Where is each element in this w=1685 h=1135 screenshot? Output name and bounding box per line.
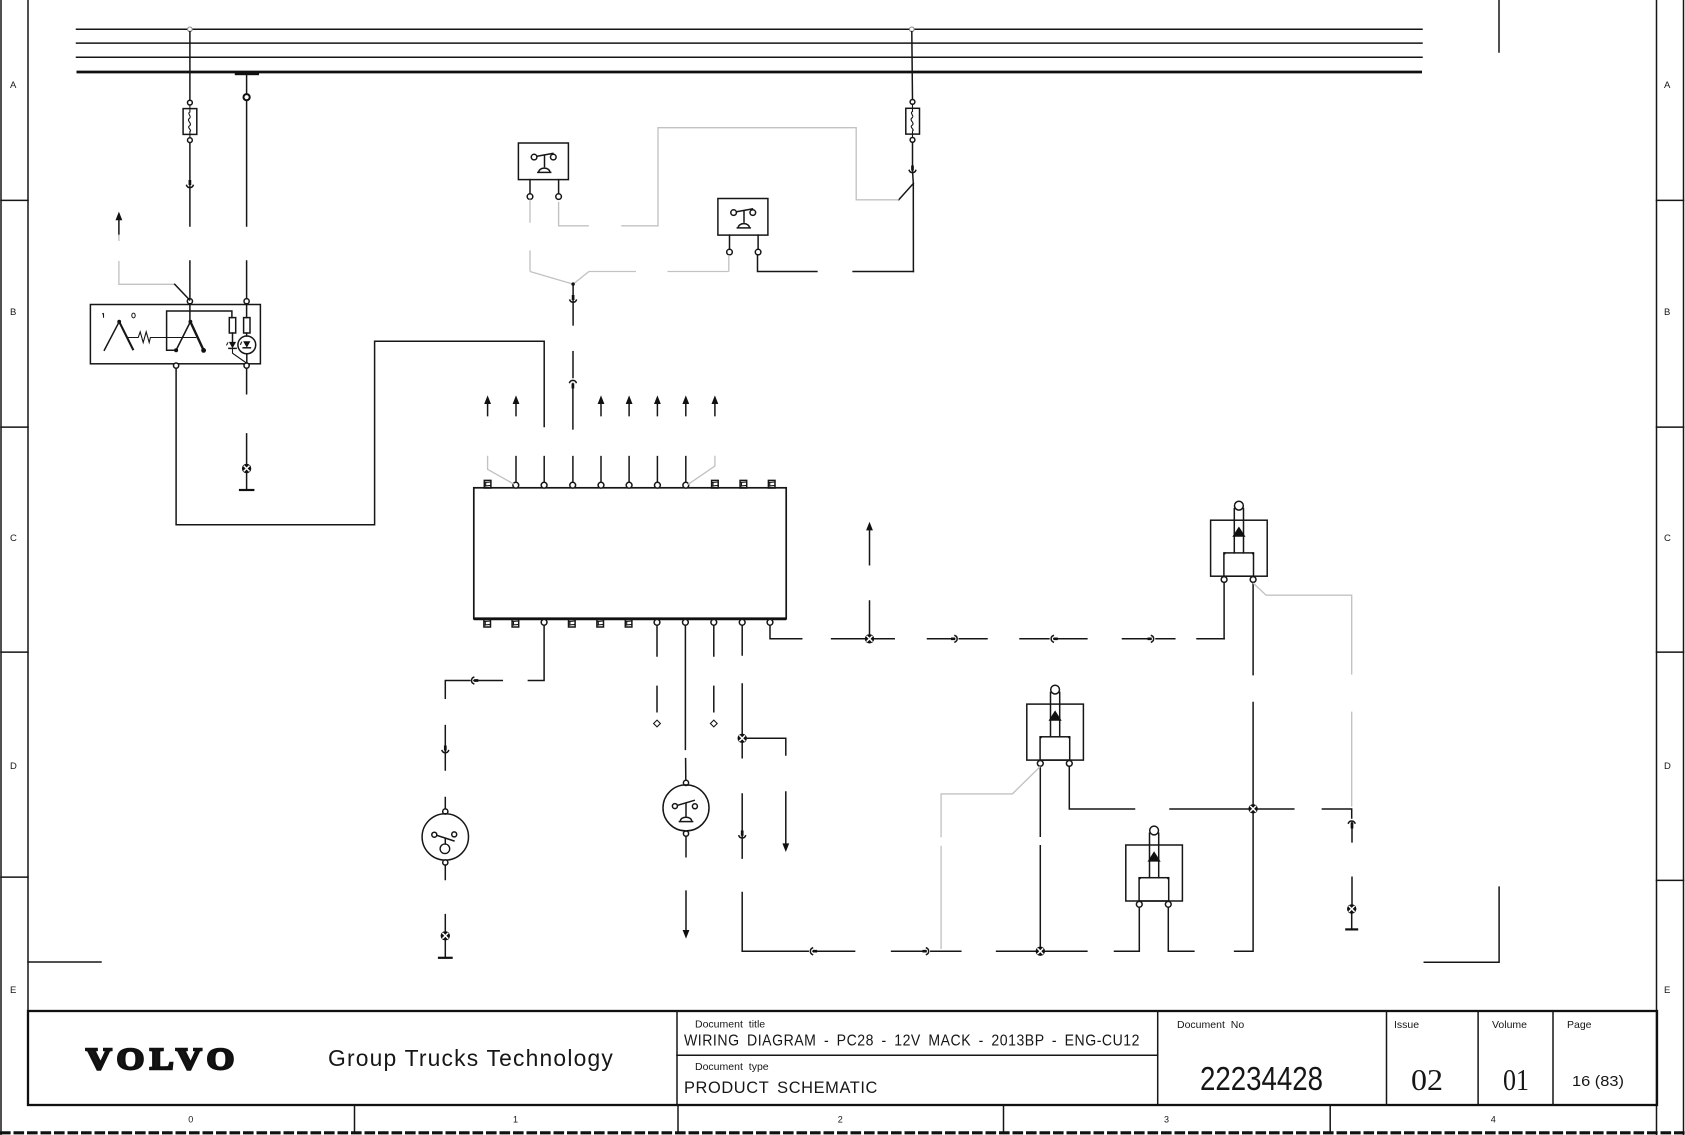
ECU bottom pin circle xyxy=(541,619,547,625)
pin label 1 xyxy=(102,313,103,318)
svg-text:Document type: Document type xyxy=(695,1061,769,1073)
ground G1 xyxy=(246,473,248,490)
svg-text:PRODUCT SCHEMATIC: PRODUCT SCHEMATIC xyxy=(684,1079,878,1097)
lamp L1 terminal xyxy=(443,809,448,814)
svg-text:Document No: Document No xyxy=(1177,1019,1244,1031)
off-page arrow up from splice xyxy=(866,522,873,531)
terminal circle at sensor xyxy=(187,299,192,304)
wire loop lower segment xyxy=(543,457,545,482)
node on bus wire 1 xyxy=(910,27,915,32)
svg-text:VOLVO: VOLVO xyxy=(86,1041,240,1076)
svg-text:0: 0 xyxy=(188,1115,193,1125)
ECU control unit xyxy=(474,488,786,619)
run segment w/ connector xyxy=(1020,638,1049,640)
pin label 0 xyxy=(132,313,135,318)
wire ECU pin to lamp L2 xyxy=(684,625,686,780)
wire fuse F2 down xyxy=(912,142,914,167)
run segment w/ connector xyxy=(928,638,955,640)
svg-text:A: A xyxy=(1664,80,1671,91)
resistor R1 xyxy=(229,318,235,333)
row E stub line left xyxy=(28,961,101,963)
ground G3 xyxy=(1351,914,1353,930)
ECU top right pin squares xyxy=(712,480,719,488)
pressure switch L2 xyxy=(663,785,709,831)
page frame right outer border xyxy=(1683,0,1685,1135)
terminal circle xyxy=(910,138,915,143)
wire S2 right pin to fuse branch xyxy=(758,255,914,272)
solenoid valve Y2 xyxy=(1027,704,1084,760)
off-page arrow up xyxy=(116,212,123,221)
splice on K1 leg xyxy=(1248,804,1257,813)
svg-text:01: 01 xyxy=(1503,1062,1529,1097)
wire ECU pin to splice S5 xyxy=(741,625,743,733)
page frame left inner border xyxy=(27,0,29,1011)
wire fuse F1 down xyxy=(189,143,191,182)
wire ECU pin to lamp L1 xyxy=(528,625,544,680)
wire lamp L2 off-page arrow xyxy=(685,836,687,930)
V-splice node xyxy=(571,282,574,285)
svg-text:E: E xyxy=(1664,985,1670,996)
solenoid valve Y1 xyxy=(1211,520,1268,576)
svg-text:E: E xyxy=(10,985,16,996)
node on bus wire 1 xyxy=(188,27,193,32)
wire ECU pin stub w/ diamond xyxy=(656,625,658,711)
ground splice xyxy=(441,931,450,940)
run final segment to relay K1 xyxy=(1197,638,1224,640)
ground G2 xyxy=(444,941,446,958)
warning lamp L1 xyxy=(422,814,468,860)
wire K2 right leg xyxy=(1069,766,1134,809)
sensor unit box xyxy=(90,305,260,364)
solenoid valve Y3 xyxy=(1126,845,1183,901)
wire bus to fuse F1 xyxy=(189,32,191,101)
wire ECU pin stub w/ diamond xyxy=(713,625,715,711)
V-splice right branch xyxy=(573,272,589,285)
indicator LED xyxy=(238,336,256,354)
svg-text:Document title: Document title xyxy=(695,1019,765,1031)
svg-text:B: B xyxy=(10,307,16,318)
wire splice branch right w/ arrow xyxy=(747,738,786,843)
splice on run xyxy=(865,634,874,643)
svg-text:C: C xyxy=(1664,533,1671,544)
bottom cut dashed line xyxy=(0,1131,1685,1134)
wire V-splice to ECU xyxy=(572,284,574,297)
left row labels xyxy=(10,80,17,996)
wire lamp L1 to ground xyxy=(444,865,446,931)
wire K2 left leg xyxy=(1039,766,1041,946)
wire K1 gray branch xyxy=(1253,583,1352,807)
svg-text:Group Trucks Technology: Group Trucks Technology xyxy=(328,1045,614,1071)
ground splice xyxy=(1347,904,1356,913)
bottom wire run xyxy=(742,950,808,952)
ECU bottom pin squares xyxy=(569,619,576,627)
inner frame xyxy=(167,311,232,350)
wire K2 gray branch xyxy=(941,767,1040,950)
svg-text:B: B xyxy=(1664,307,1670,318)
svg-text:WIRING DIAGRAM - PC28 - 12V MA: WIRING DIAGRAM - PC28 - 12V MACK - 2013B… xyxy=(684,1033,1140,1050)
svg-text:16 (83): 16 (83) xyxy=(1572,1074,1624,1090)
wire K3 right leg xyxy=(1168,907,1194,951)
bottom ruler labels xyxy=(188,1115,1495,1125)
bus wire 1 xyxy=(77,28,1423,30)
fuse F2 xyxy=(906,108,920,134)
terminal circle at sensor xyxy=(244,299,249,304)
pressure switch S1 xyxy=(518,143,568,180)
wire ECU pin to relay run xyxy=(770,625,802,638)
title block outline xyxy=(28,1011,1657,1105)
gray jumper to pin left xyxy=(488,456,514,484)
wire splice down to bottom run xyxy=(741,743,743,832)
ECU top pin squares xyxy=(484,480,491,488)
fuse F1 xyxy=(183,109,197,135)
connector terminal wedges xyxy=(190,166,1352,952)
zener diode D1 xyxy=(229,342,236,348)
wire run to relay K1 xyxy=(832,638,895,640)
wire S1 left pin xyxy=(529,199,531,271)
bottom ruler ticks xyxy=(355,1105,1331,1131)
run segment w/ connector xyxy=(1123,638,1151,640)
wire K1 left leg xyxy=(1223,582,1225,638)
svg-text:A: A xyxy=(10,80,17,91)
splice xyxy=(738,734,747,743)
svg-text:3: 3 xyxy=(1164,1115,1169,1125)
level float symbol right xyxy=(189,320,193,324)
off-page arrows above ECU xyxy=(484,395,491,404)
wire connector down xyxy=(189,186,191,226)
svg-text:D: D xyxy=(1664,761,1671,772)
bus bar tap xyxy=(235,73,259,76)
wire junction to sensor xyxy=(246,101,248,227)
svg-text:D: D xyxy=(10,761,17,772)
lamp L2 terminal xyxy=(683,780,688,785)
pressure switch S2 xyxy=(718,199,768,236)
title block dividers xyxy=(677,1011,1553,1105)
splice bottom run xyxy=(1036,947,1045,956)
bus wire 2 xyxy=(77,42,1423,44)
wire K1 right leg down xyxy=(1252,582,1254,804)
svg-text:C: C xyxy=(10,533,17,544)
switch pins xyxy=(730,235,759,249)
svg-text:Issue: Issue xyxy=(1394,1019,1419,1031)
wire S2 left pin run xyxy=(589,255,729,272)
resistor zigzag xyxy=(128,332,197,343)
bus wire 4 thick xyxy=(77,71,1423,74)
wire lower segment xyxy=(246,261,248,299)
V-splice left branch xyxy=(530,272,573,285)
svg-text:22234428: 22234428 xyxy=(1200,1060,1323,1097)
wire D1 to terminal xyxy=(233,348,247,363)
wire branch to gray harness xyxy=(899,184,914,200)
wire connector to branch node xyxy=(912,171,915,183)
gray jumper to pin right xyxy=(688,456,715,485)
right row labels xyxy=(1664,80,1671,996)
svg-text:02: 02 xyxy=(1411,1062,1443,1097)
wire gray harness fuse to S1 xyxy=(621,128,899,226)
terminal circle xyxy=(188,138,193,143)
wire sensor ground xyxy=(246,368,248,463)
wire gray harness link xyxy=(118,235,120,242)
wire tap down xyxy=(246,75,248,94)
ECU bottom pin circles xyxy=(654,619,660,625)
sensor bottom terminals xyxy=(174,363,179,368)
page frame right inner border xyxy=(1656,0,1658,1135)
left row dividers xyxy=(1,200,28,877)
svg-text:4: 4 xyxy=(1491,1115,1496,1125)
terminal circle xyxy=(188,100,193,105)
page frame left outer border xyxy=(0,0,2,1135)
bold junction circle xyxy=(244,94,250,100)
wire lower segment to sensor xyxy=(189,261,191,299)
svg-text:2: 2 xyxy=(838,1115,843,1125)
wire right ground drop xyxy=(1351,809,1353,818)
inline connector xyxy=(187,185,194,187)
svg-text:1: 1 xyxy=(513,1115,518,1125)
switch pins xyxy=(530,180,559,194)
svg-text:Page: Page xyxy=(1567,1019,1592,1031)
top column tick xyxy=(1498,0,1500,52)
level float symbol left xyxy=(117,320,121,324)
wire branch down to S2 xyxy=(912,184,914,272)
run y=809 xyxy=(1170,808,1351,810)
wire stubs into ECU top xyxy=(515,457,517,482)
wire bus to fuse F2 xyxy=(911,32,914,100)
terminal circle xyxy=(910,100,915,105)
ECU bottom pin squares xyxy=(484,619,491,627)
wire link to sensor terminal xyxy=(175,284,190,300)
corner stub bottom right xyxy=(1424,887,1499,962)
inline connector xyxy=(909,170,916,172)
ECU top pin circles xyxy=(513,482,519,488)
resistor R2 xyxy=(244,318,250,333)
wire K3 left leg xyxy=(1115,907,1140,951)
bus wire 3 xyxy=(77,56,1423,58)
right row dividers xyxy=(1657,200,1684,880)
wire sensor signal loop xyxy=(176,341,544,525)
svg-text:Volume: Volume xyxy=(1492,1019,1527,1031)
ground splice xyxy=(242,464,251,473)
wire K1 leg to bottom run xyxy=(1235,814,1254,952)
